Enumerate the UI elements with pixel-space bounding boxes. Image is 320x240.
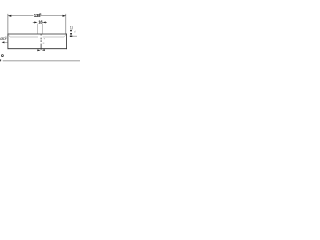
bottom center left-pointing arrowhead — [42, 49, 45, 51]
inner wall line right half — [43, 36, 65, 38]
item circle marker — [1, 55, 3, 57]
dimension 16 right extension line — [41, 24, 43, 34]
background — [0, 0, 80, 80]
center line dash 4 crossing bottom edge — [40, 44, 42, 50]
body top edge — [8, 33, 67, 35]
svg-text:1): 1) — [70, 25, 73, 29]
center line dash 1 — [40, 34, 42, 35]
edge mark left of rule — [0, 59, 1, 61]
dimension 16 left extension line — [37, 24, 39, 34]
faint inner mark lower — [43, 43, 45, 44]
body left edge — [7, 34, 9, 50]
wall dimension leader end blob — [70, 36, 72, 38]
inner wall line left half — [10, 36, 38, 38]
center line dash 3 — [40, 40, 42, 42]
dimension 16 left tail line — [33, 21, 35, 23]
dimension 138 right arrowhead — [63, 15, 66, 17]
wall dimension leader line — [70, 35, 73, 37]
diameter leader arrowhead — [2, 41, 5, 43]
wall dimension upper blob — [70, 30, 72, 32]
dimension 16 right tail line — [46, 21, 47, 23]
dimension 16 right arrowhead — [43, 22, 46, 24]
wall dimension lower blob — [70, 33, 72, 35]
dimension 138 line left segment — [8, 15, 33, 17]
body right edge — [66, 34, 68, 50]
dimension 138 left arrowhead — [8, 15, 11, 17]
separator rule — [3, 60, 80, 61]
dimension 138 right extension line — [65, 14, 67, 34]
body bottom edge — [8, 48, 67, 50]
inner wall chamfer right — [64, 35, 66, 37]
inner wall chamfer left — [8, 35, 10, 37]
dimension 16 left arrowhead — [34, 22, 37, 24]
svg-text:1): 1) — [5, 36, 7, 39]
faint inner mark upper — [44, 38, 45, 39]
bottom center right-pointing arrowhead — [37, 49, 40, 51]
dimension 138 left extension line — [7, 14, 9, 34]
center line dash 2 — [40, 38, 42, 40]
diameter leader line — [4, 41, 8, 43]
dimension 138 line right segment — [41, 15, 66, 17]
